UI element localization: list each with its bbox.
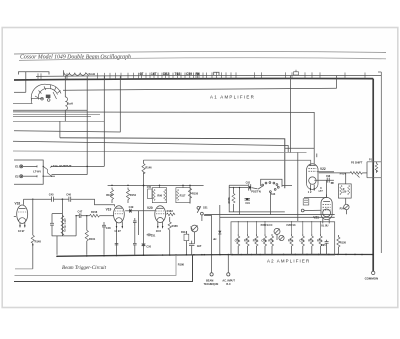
wire y89 A1 stage xyxy=(63,88,337,90)
svg-text:E2: E2 xyxy=(15,174,19,178)
svg-text:POST'N: POST'N xyxy=(251,190,261,194)
svg-text:C51: C51 xyxy=(151,235,156,238)
svg-text:1kP: 1kP xyxy=(197,245,202,248)
capacitor C49 coupling xyxy=(125,205,155,213)
svg-text:V18: V18 xyxy=(15,201,21,205)
capacitor C48 xyxy=(102,222,111,255)
wire x104 drop xyxy=(103,76,105,167)
double-triode V22 xyxy=(285,148,334,194)
svg-text:C95: C95 xyxy=(321,244,326,247)
wire y121 left xyxy=(13,120,104,122)
svg-text:LT-HV: LT-HV xyxy=(33,170,41,174)
wire y151 long xyxy=(13,151,307,153)
resistor R146 inline x144 xyxy=(142,160,152,255)
title overline xyxy=(14,51,386,54)
resistor R154 xyxy=(126,188,136,204)
preset pot RV20 xyxy=(191,225,198,244)
double-triode V21 xyxy=(313,194,332,227)
svg-text:6T: 6T xyxy=(140,72,144,76)
svg-text:V19: V19 xyxy=(106,208,112,212)
svg-text:C70: C70 xyxy=(299,239,304,243)
wire stub y92 xyxy=(14,91,26,93)
svg-text:R96: R96 xyxy=(157,194,162,197)
capacitor C92 xyxy=(246,182,251,191)
label B LT7 xyxy=(319,187,324,193)
svg-text:SYNC AMP: SYNC AMP xyxy=(63,218,67,232)
svg-text:R72: R72 xyxy=(253,239,258,243)
wire y138 long xyxy=(60,138,285,188)
svg-text:D52: D52 xyxy=(163,72,169,76)
preset pot P27 xyxy=(279,235,284,240)
resistor R76 xyxy=(317,234,322,255)
resistor R117 boxed xyxy=(176,186,190,203)
resistor R161 xyxy=(75,215,95,255)
svg-text:R161: R161 xyxy=(89,237,96,241)
svg-text:P2 SHIFT: P2 SHIFT xyxy=(351,160,363,164)
wire y141-145 long xyxy=(13,141,288,152)
svg-text:R163: R163 xyxy=(167,209,174,213)
capacitor C54 small xyxy=(115,243,119,245)
resistor R96 boxed xyxy=(152,186,166,203)
svg-text:C46: C46 xyxy=(66,192,71,196)
svg-text:1 2: 1 2 xyxy=(308,190,312,194)
pot RV24 P2 SHIFT xyxy=(319,160,367,177)
svg-text:R186: R186 xyxy=(178,262,185,266)
svg-text:C49: C49 xyxy=(129,205,134,209)
svg-text:R126: R126 xyxy=(340,240,347,244)
capacitor C47 xyxy=(76,210,89,218)
rotary beam selector switch S xyxy=(31,84,61,103)
stub x381 top xyxy=(378,71,381,73)
wire x120 drop xyxy=(119,76,121,132)
COMMON terminal xyxy=(365,271,379,280)
anode supply rail y185 xyxy=(108,185,204,187)
HT bus thick xyxy=(14,78,373,80)
terminal AC INPUT xyxy=(222,255,235,286)
svg-text:C66: C66 xyxy=(235,239,240,243)
wire x138 drop xyxy=(138,211,140,235)
svg-text:C48: C48 xyxy=(106,226,111,230)
grid terminal circle xyxy=(301,199,320,212)
svg-text:RV75: RV75 xyxy=(228,197,231,204)
wire y112 to V22 grid xyxy=(13,112,314,165)
box risers xyxy=(238,221,320,234)
wire y131 left xyxy=(14,131,121,132)
svg-text:S21: S21 xyxy=(203,206,208,210)
bus junction dots xyxy=(56,254,373,257)
wire drop from bracket xyxy=(25,72,27,93)
capacitor C53 xyxy=(189,241,202,255)
triode V20 xyxy=(147,206,166,233)
svg-text:5mH: 5mH xyxy=(89,72,96,76)
resistor R126 xyxy=(337,235,347,255)
svg-text:R76: R76 xyxy=(317,239,322,243)
resistor R165 vertical xyxy=(168,217,178,255)
small component on rail right xyxy=(294,70,299,75)
svg-text:R148: R148 xyxy=(35,239,42,243)
bracket wire top-left xyxy=(19,72,50,75)
wire riser x336 xyxy=(336,76,338,88)
svg-text:R74: R74 xyxy=(288,239,293,243)
svg-text:C51: C51 xyxy=(147,186,152,189)
return wire y281 xyxy=(14,255,193,282)
svg-text:F.B. OUTPUT: F.B. OUTPUT xyxy=(53,164,72,168)
preset pot P26 xyxy=(274,228,280,240)
wire x87 drop xyxy=(86,76,88,174)
capacitor C91 xyxy=(245,198,251,205)
resistor R71 xyxy=(244,234,249,255)
svg-text:R6: R6 xyxy=(196,72,200,76)
svg-text:8L 8U: 8L 8U xyxy=(321,224,328,228)
capacitor C46 + step wire xyxy=(24,192,115,206)
rail ticks xyxy=(38,72,365,79)
svg-text:R158: R158 xyxy=(91,210,98,214)
svg-text:18 8: 18 8 xyxy=(156,229,162,233)
wire x367 stub xyxy=(367,161,381,163)
resistor R73 xyxy=(268,234,273,255)
feed wires y214/217 xyxy=(204,214,334,216)
selector enclosure POST'N xyxy=(229,179,292,212)
wire x65 drop + inductor vertical xyxy=(65,76,72,121)
capacitor C51 box xyxy=(147,186,152,199)
resistor R114 boxed xyxy=(181,231,189,255)
wire y160 long xyxy=(144,160,311,166)
HT bus drop to COMMON xyxy=(372,79,374,272)
resistor C69 xyxy=(261,234,266,255)
svg-text:E1: E1 xyxy=(15,165,19,169)
svg-text:R117: R117 xyxy=(180,194,186,197)
svg-text:V22: V22 xyxy=(320,167,326,171)
svg-text:V20: V20 xyxy=(147,206,153,210)
svg-text:uH: uH xyxy=(213,238,217,241)
resistor R75 xyxy=(308,234,313,255)
rail labels xyxy=(140,72,200,76)
resistor R160 xyxy=(106,188,113,204)
wire y110 left xyxy=(13,109,87,111)
svg-text:A2 AMPLIFIER: A2 AMPLIFIER xyxy=(267,259,310,264)
pot P24 xyxy=(340,173,349,214)
svg-text:R158: R158 xyxy=(192,192,199,195)
wire y114 left xyxy=(13,113,100,115)
resistor C70 xyxy=(299,234,304,255)
svg-text:C45: C45 xyxy=(49,192,54,196)
wire y103 left xyxy=(13,103,33,105)
svg-text:C47: C47 xyxy=(78,210,83,214)
svg-text:16 97: 16 97 xyxy=(114,229,121,233)
svg-text:R75: R75 xyxy=(308,239,313,243)
pot RV75 xyxy=(228,187,235,212)
svg-text:V21: V21 xyxy=(313,215,319,219)
svg-text:A1 AMPLIFIER: A1 AMPLIFIER xyxy=(210,95,255,100)
svg-text:C59: C59 xyxy=(186,72,192,76)
wire x297 drop xyxy=(297,153,299,222)
svg-text:16T: 16T xyxy=(151,72,157,76)
svg-text:P26F13 O: P26F13 O xyxy=(261,223,273,227)
svg-text:R165: R165 xyxy=(172,224,179,228)
inductor 5mH xyxy=(64,70,96,76)
terminal block E1 E2 / F.B. OUTPUT xyxy=(14,160,104,184)
capacitor C96 xyxy=(326,176,334,184)
sync amplitude pot branch xyxy=(50,199,76,255)
resistor R72 xyxy=(253,234,258,255)
terminal BEAM TECHNIQUE xyxy=(204,255,219,286)
resistor R74 xyxy=(288,234,293,255)
rotary switch S13 contacts xyxy=(258,182,279,215)
svg-text:Beam Trigger-Circuit: Beam Trigger-Circuit xyxy=(62,265,107,271)
junction dots rail xyxy=(111,185,190,186)
svg-text:16 97: 16 97 xyxy=(18,229,25,233)
title underline xyxy=(19,58,386,61)
wire x381 right xyxy=(380,72,382,253)
capacitor C113 xyxy=(147,233,156,237)
resistor box R129 R134 xyxy=(338,184,351,205)
diode Z1 xyxy=(204,205,221,255)
triode V19 xyxy=(106,206,125,255)
light wire y275 xyxy=(15,255,177,276)
svg-text:R71: R71 xyxy=(244,239,249,243)
svg-text:LT7: LT7 xyxy=(319,190,324,193)
resistor R148 xyxy=(15,199,41,269)
capacitor C55 small xyxy=(133,227,137,255)
resistor C66 xyxy=(235,234,240,255)
wire drop x76 xyxy=(75,216,77,236)
svg-text:R146: R146 xyxy=(145,165,152,169)
wire x290 drop xyxy=(290,76,292,153)
svg-text:R154: R154 xyxy=(130,193,137,197)
svg-text:P24: P24 xyxy=(340,207,345,210)
svg-text:C91: C91 xyxy=(245,202,250,205)
svg-text:C92: C92 xyxy=(246,182,251,185)
wire V22 legs to V21 xyxy=(304,197,326,199)
svg-text:S13: S13 xyxy=(271,193,276,196)
svg-text:R160: R160 xyxy=(106,193,113,197)
triode V18 xyxy=(14,199,34,233)
capacitor C52 small xyxy=(133,218,137,227)
wire fb lower xyxy=(52,174,88,176)
resistor R163 series xyxy=(166,209,175,216)
switch S21 xyxy=(197,206,208,221)
ground bus xyxy=(57,254,373,256)
preset box A2 xyxy=(231,222,335,255)
resistor R158 series xyxy=(90,210,115,217)
feed wire2 xyxy=(220,216,335,218)
wire y116 left xyxy=(13,116,91,118)
svg-text:C50: C50 xyxy=(146,246,151,249)
wire V21 anode feed xyxy=(326,180,328,198)
svg-text:5uH: 5uH xyxy=(68,102,73,106)
resistor R158b xyxy=(188,185,198,203)
wire y177 stub xyxy=(367,177,381,179)
wire selector feed xyxy=(229,187,257,215)
capacitor C95 xyxy=(321,240,329,255)
svg-text:C98: C98 xyxy=(326,176,331,178)
svg-text:C69: C69 xyxy=(261,239,266,243)
bracket over ticks mid xyxy=(214,72,219,75)
svg-text:R73: R73 xyxy=(268,239,273,243)
svg-text:T68: T68 xyxy=(175,72,181,76)
riser x59.9 xyxy=(59,121,61,138)
svg-text:B-C: B-C xyxy=(226,283,231,286)
capacitor C50 xyxy=(142,244,152,249)
svg-text:COMMON: COMMON xyxy=(365,276,379,280)
svg-text:TECHNIQUE: TECHNIQUE xyxy=(204,283,219,286)
pot P1 shift small xyxy=(369,158,378,173)
HT rail thin xyxy=(36,75,381,76)
